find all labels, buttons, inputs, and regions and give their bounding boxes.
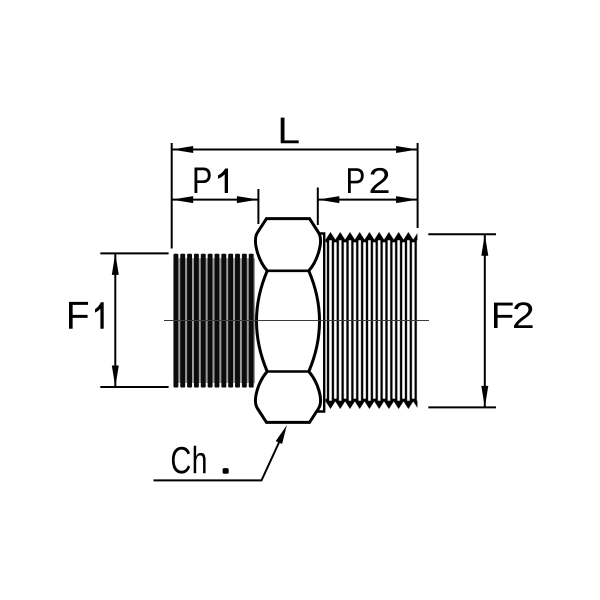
chamfer label Ch.: [172, 446, 206, 474]
dimension L extension line left: [171, 143, 173, 249]
dimension P2 label: [348, 168, 389, 193]
dimension F1 label: [69, 302, 104, 329]
dimension L extension line right: [417, 143, 419, 228]
dimension F2 extension line top: [428, 233, 496, 235]
chamfer label period: [223, 468, 229, 474]
centerline: [164, 320, 429, 322]
hex body: [256, 219, 321, 423]
dimension F1 line: [114, 253, 116, 387]
dimension P1 extension line: [257, 189, 259, 224]
dimension P2 extension line: [317, 188, 319, 226]
chamfer callout leader: [154, 431, 285, 481]
left male thread (F1 port): [173, 254, 255, 388]
right male thread (F2 port): [326, 232, 418, 409]
dimension F1 extension line top: [100, 252, 168, 254]
dimension F2 label: [494, 302, 533, 328]
dimension F1 extension line bottom: [100, 386, 168, 388]
dimension P1 line: [172, 199, 259, 201]
dimension P1 label: [194, 167, 228, 193]
hex face boundary lower: [267, 370, 309, 373]
dimension P2 line: [318, 199, 418, 201]
flange collar between hex and right thread: [316, 234, 324, 412]
dimension L line: [172, 149, 418, 151]
dimension L label: [281, 118, 299, 144]
dimension F2 extension line bottom: [428, 406, 496, 408]
dimension F2 line: [484, 234, 486, 407]
hex face boundary upper: [267, 269, 309, 272]
